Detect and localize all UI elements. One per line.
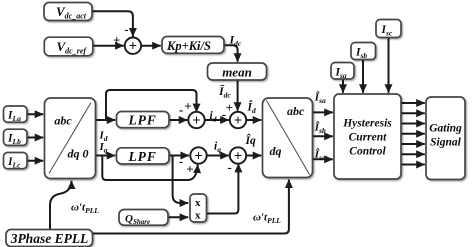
svg-text:+: + — [234, 113, 242, 129]
svg-text:-: - — [179, 102, 183, 117]
svg-text:+: + — [194, 148, 202, 164]
svg-text:dq: dq — [270, 144, 282, 158]
svg-text:abc: abc — [54, 114, 72, 128]
svg-text:Signal: Signal — [430, 137, 461, 149]
svg-text:+: + — [226, 100, 233, 115]
svg-text:+: + — [186, 162, 193, 177]
svg-text:+: + — [192, 113, 200, 129]
svg-text:ω′tPLL: ω′tPLL — [71, 202, 99, 216]
svg-text:x: x — [195, 197, 201, 209]
svg-text:mean: mean — [222, 65, 252, 80]
svg-text:-: - — [227, 160, 231, 175]
svg-text:Îsa: Îsa — [314, 92, 326, 106]
svg-text:Kp+Ki/S: Kp+Ki/S — [166, 39, 211, 53]
svg-text:Hysteresis: Hysteresis — [342, 118, 392, 130]
svg-text:Current: Current — [349, 132, 388, 144]
svg-text:iq: iq — [214, 141, 221, 155]
svg-text:abc: abc — [287, 104, 305, 118]
svg-text:3Phase EPLL: 3Phase EPLL — [10, 231, 89, 246]
svg-text:Idc: Idc — [229, 33, 242, 49]
svg-text:Îsb: Îsb — [314, 122, 326, 136]
svg-text:-: - — [124, 22, 128, 37]
svg-text:+: + — [234, 148, 242, 164]
svg-text:Îsc: Îsc — [314, 149, 326, 163]
svg-text:LPF: LPF — [127, 113, 157, 128]
svg-text:Control: Control — [349, 146, 386, 158]
svg-text:Īdc: Īdc — [218, 84, 231, 100]
svg-text:LPF: LPF — [127, 149, 157, 164]
svg-text:ω′tPLL: ω′tPLL — [253, 212, 281, 226]
svg-text:x: x — [195, 210, 201, 222]
svg-text:Iq: Iq — [99, 141, 108, 155]
svg-text:Gating: Gating — [429, 123, 462, 135]
svg-text:+: + — [113, 33, 120, 48]
svg-text:id: id — [210, 110, 217, 124]
svg-text:Îq: Îq — [245, 133, 256, 147]
svg-text:dq 0: dq 0 — [68, 147, 89, 161]
svg-text:Îd: Îd — [247, 100, 256, 116]
svg-text:+: + — [184, 99, 191, 114]
svg-text:+: + — [129, 39, 137, 55]
svg-text:-: - — [179, 154, 183, 169]
